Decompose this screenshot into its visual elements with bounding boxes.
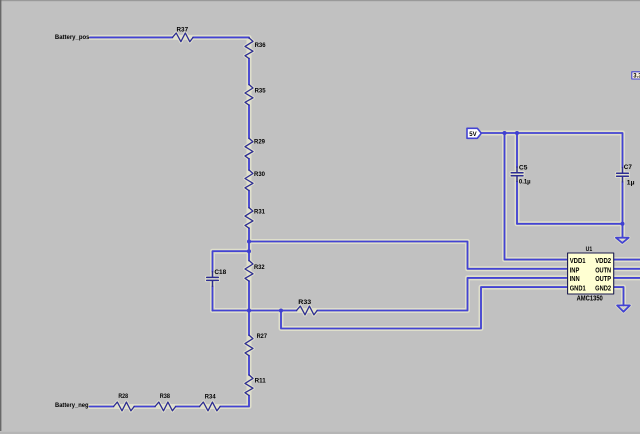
svg-text:1µ: 1µ [627,180,635,187]
junction C7/ground rail (622.5,223.8) [621,222,625,226]
svg-text:R32: R32 [254,264,265,271]
junction 5V/VDD1 (504.5,133) [503,131,507,135]
wire R32 bottom to node row [248,281,250,310]
wire bottom rail C5 to C7 [517,223,623,225]
svg-text:C7: C7 [624,164,632,171]
capacitor C7 [617,168,629,182]
svg-text:INN: INN [570,276,580,283]
wire R38 to R34 [176,406,200,408]
resistor R32 [245,261,253,282]
op-amp U1 (AMC1350 isolation amplifier) [568,246,614,302]
svg-text:Battery_pos: Battery_pos [55,34,90,41]
wire R37 to R36 top corner [193,36,249,39]
ground symbol below C7 [616,238,629,243]
svg-text:5V: 5V [469,131,477,138]
svg-text:R34: R34 [205,394,216,401]
wire VDD2 pin right [614,259,640,261]
halo glow under capacitor plates and grounds [207,173,630,312]
svg-text:OUTP: OUTP [595,276,611,283]
wire R31 to R32 through nodes [248,228,250,260]
svg-text:R30: R30 [254,171,265,178]
wire R11 to bottom corner [220,396,249,407]
wire R29 to R30 [248,159,250,170]
svg-text:R29: R29 [254,139,265,146]
svg-text:GND2: GND2 [595,285,611,292]
wire C5 top leg [516,133,518,167]
junction 5V/C5 (517,133) [515,131,519,135]
resistor R11 [245,375,253,396]
svg-text:C18: C18 [214,269,226,276]
svg-text:VDD2: VDD2 [595,258,611,265]
wire R30 to R31 [248,191,250,208]
svg-text:R11: R11 [255,378,266,385]
wire R35 to R29 [248,105,250,138]
resistor R36 [245,38,253,59]
svg-text:Battery_neg: Battery_neg [55,402,89,409]
wire OUTP pin right [614,277,640,279]
halo glows under wires [90,37,640,406]
wire node C to GND1 pin [281,287,567,328]
wire node row to R33 [213,310,297,312]
wire C5 bottom to rail [516,181,518,223]
wire C18 bottom to node row [212,286,214,310]
resistor R27 [245,335,253,356]
svg-text:U1: U1 [586,246,593,253]
resistor R34 [200,402,221,411]
svg-text:R37: R37 [177,27,189,34]
wire Battery_pos to R37 [90,36,172,38]
bottom scrollbar strip [0,432,640,434]
ground symbol below GND2 [617,305,630,311]
resistor R38 [155,402,176,411]
wire R36 to R35 [248,59,250,85]
resistor R30 [245,170,253,191]
wire C7 bottom leg [622,182,624,224]
wire 5V junction to VDD1 pin [505,133,567,260]
svg-text:VDD1: VDD1 [570,258,586,265]
resistor R35 [245,85,253,106]
capacitor C5 [511,167,523,181]
resistor R31 [245,208,253,229]
svg-text:INP: INP [570,267,580,274]
svg-text:R35: R35 [255,88,266,95]
net flag 5V [467,128,481,138]
svg-text:OUTN: OUTN [595,267,611,274]
wire C7 node to ground [622,224,624,238]
svg-text:R33: R33 [298,299,311,306]
svg-text:0.1µ: 0.1µ [519,178,531,185]
wire Battery_neg to R28 [90,406,114,408]
junction node A (249,241.5) [247,240,251,244]
resistor R29 [245,138,253,159]
svg-text:3.3: 3.3 [633,74,640,80]
capacitor C18 [207,272,219,287]
window left border [0,0,1,431]
net flag 3.3V (cut off at right edge) [632,72,640,80]
resistor R33 [297,306,318,315]
window top border [0,0,640,1]
wire 5V flag to C7 top [481,133,622,168]
wire node A to INP pin [249,242,567,269]
wire node B to C18 top [213,251,250,271]
wire R28 to R38 [134,406,155,408]
halo glow under component bodies [114,33,318,411]
svg-text:GND1: GND1 [570,285,586,292]
svg-text:R31: R31 [254,209,265,216]
svg-text:R36: R36 [255,42,266,49]
svg-text:AMC1350: AMC1350 [577,295,603,302]
wire OUTN pin right [614,268,640,270]
junction node C (281,310.5) [279,309,283,313]
wire R33 to INN pin [317,278,566,311]
resistor R37 [172,33,193,42]
svg-text:R27: R27 [257,333,268,340]
svg-text:R28: R28 [118,393,128,400]
wire GND2 to ground [614,287,624,305]
svg-text:R38: R38 [160,393,171,400]
junction node row center (249,310.5) [247,309,251,313]
svg-text:C5: C5 [519,164,528,171]
wire node row to R27 [248,311,250,336]
resistor R28 [114,402,135,411]
wire R27 to R11 [248,356,250,375]
junction node B (249,251.2) [247,249,251,253]
